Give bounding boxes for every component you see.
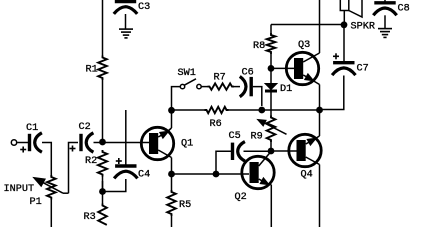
svg-text:R7: R7 [214,73,226,84]
wire [384,0,386,2]
resistor R5 [171,174,173,190]
svg-text:C3: C3 [138,2,150,13]
svg-text:C7: C7 [357,64,369,75]
svg-text:C2: C2 [79,122,91,133]
diode D1 [265,84,277,90]
svg-text:Q2: Q2 [235,192,247,203]
resistor R6 [205,107,229,113]
wire [271,67,294,69]
wire [171,110,173,128]
svg-text:R2: R2 [85,156,97,167]
wire [102,181,104,192]
wire [103,179,126,192]
svg-text:INPUT: INPUT [4,184,35,195]
svg-text:Q4: Q4 [301,169,313,180]
resistor R2 [98,150,107,177]
wire [42,143,51,176]
capacitor C2 [79,134,82,151]
capacitor C5 [231,143,234,160]
resistor R1 [98,56,107,81]
ground [378,28,392,30]
svg-text:C8: C8 [398,4,410,15]
svg-text:SPKR: SPKR [351,22,375,33]
wire [103,142,150,144]
wire [270,54,272,68]
transistor Q2 [242,156,274,188]
wire [384,15,386,28]
wire [125,14,127,29]
wire [319,110,321,136]
wire [270,185,272,228]
svg-text:R9: R9 [251,132,263,143]
wire [234,86,240,88]
wire [102,0,104,56]
wire [17,142,28,144]
P1 wiper [63,192,69,194]
input terminal [11,140,16,145]
wire [319,85,321,111]
switch SW1 [180,84,184,88]
wire [343,25,345,62]
wire [201,86,207,88]
node SPKR [341,21,348,28]
svg-text:C4: C4 [138,170,150,181]
node [213,171,220,178]
wire [69,143,79,194]
svg-text:C5: C5 [229,131,241,142]
svg-text:R3: R3 [84,212,96,223]
wire [319,165,321,228]
capacitor C4 [115,164,136,167]
node [316,107,323,114]
speaker SPKR [340,0,349,11]
capacitor C6 [249,77,252,96]
svg-text:R8: R8 [253,41,265,52]
node [168,107,175,114]
wire [244,150,272,152]
capacitor C1 [28,134,31,151]
potentiometer P1 [47,175,56,200]
R9 arrow [265,123,287,134]
svg-text:C1: C1 [26,123,38,134]
svg-text:R1: R1 [86,65,98,76]
wire [216,151,231,174]
wire [319,0,321,53]
transistor Q4 [289,134,321,166]
node [268,148,275,155]
svg-text:P1: P1 [30,197,42,208]
ground [119,28,133,30]
wire [102,177,104,192]
wire [171,158,173,175]
wire [270,142,272,151]
capacitor C3 [115,0,136,3]
wire [172,173,250,175]
capacitor C8 [374,1,395,4]
svg-text:R5: R5 [179,200,191,211]
capacitor C7 [333,61,354,64]
svg-text:C6: C6 [242,68,254,79]
svg-text:SW1: SW1 [178,68,196,79]
node [268,65,275,72]
wire [270,93,272,116]
wire [320,76,344,110]
wire [271,150,297,152]
resistor R3 [102,192,104,204]
wire [270,68,272,83]
node [258,107,265,114]
node [99,139,106,146]
svg-text:Q3: Q3 [298,40,310,51]
resistor R8 [267,33,276,54]
wire [172,87,181,110]
svg-text:Q1: Q1 [181,139,193,150]
wire [253,87,262,106]
wire [229,109,320,111]
wire [271,24,344,26]
wire [102,80,104,143]
transistor Q3 [286,52,318,84]
resistor R7 [208,83,235,89]
wire [125,110,127,166]
wire [270,25,272,34]
transistor Q1 [141,127,173,159]
svg-text:R6: R6 [210,119,222,130]
resistor R9 [267,116,276,143]
wire [172,109,205,111]
wire [343,11,345,26]
node [168,171,175,178]
wire [94,142,103,144]
svg-text:D1: D1 [280,84,292,95]
node [99,188,106,195]
